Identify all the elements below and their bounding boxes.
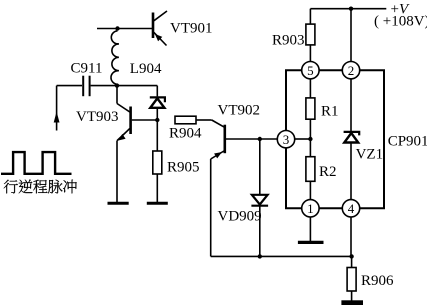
resistor R2 [306,139,315,200]
svg-text:R906: R906 [361,273,394,289]
svg-text:VT902: VT902 [218,103,261,119]
svg-text:1: 1 [307,201,314,216]
svg-text:L904: L904 [130,61,162,77]
svg-text:VT901: VT901 [170,21,213,37]
resistor R906 [347,256,356,300]
resistor R904 [175,116,212,124]
diode VD909 [251,139,268,256]
input arrow wire [54,86,60,131]
transistor VT901 [153,11,167,46]
square wave pulse symbol [1,152,72,174]
node dot rail / R906 / pin4 [349,254,353,258]
ground (VT903 emitter) [108,202,129,205]
transistor VT902 [211,120,278,256]
transistor VT903 [117,86,157,203]
ground (R905) [147,202,168,205]
svg-text:R903: R903 [272,33,305,49]
zener diode (unlabeled, above node) [150,86,165,120]
svg-text:3: 3 [283,132,290,147]
node dot VT902 base / VD909 [258,137,262,141]
top +V rail [310,8,386,10]
svg-text:R1: R1 [321,104,339,120]
pin 5 [302,61,319,78]
svg-text:R904: R904 [169,126,202,142]
svg-text:R905: R905 [167,159,200,175]
CP901 box outline [286,70,384,208]
wire pin4 to rail [350,217,352,256]
pin 3 [277,131,294,148]
node junction dot top [115,26,119,30]
label 行逆程脉冲 (hand-vectorized glyphs) [4,180,77,194]
node dot VD909 / rail [258,254,262,258]
ground (pin 1) [298,217,324,242]
svg-text:CP901: CP901 [388,134,427,150]
resistor R1 [306,79,315,139]
svg-text:4: 4 [348,201,355,216]
node dot R1/R2 [308,137,312,141]
bottom rail wire [211,255,352,257]
pin 4 [342,200,359,217]
inductor L904 [111,31,119,85]
svg-text:( +108V): ( +108V) [374,14,427,30]
resistor R905 [153,120,162,203]
pin 2 [342,61,359,78]
zener diode VZ1 [344,79,360,200]
pin 1 [302,200,319,217]
svg-text:R2: R2 [319,164,337,180]
svg-text:C911: C911 [71,61,103,77]
ground (R906, thick bar) [341,300,363,305]
wire +V rail to pin 2 [350,9,352,62]
svg-text:VD909: VD909 [218,209,262,225]
svg-text:VT903: VT903 [76,109,119,125]
svg-text:2: 2 [348,63,355,78]
svg-text:5: 5 [307,63,314,78]
node dot +V rail [349,7,353,11]
resistor R903 [306,9,315,62]
node dot VT903 base / R904 / R905 [155,118,159,122]
wire top-left to VT901 base [97,28,152,30]
svg-text:VZ1: VZ1 [356,147,384,163]
capacitor C911 [57,76,158,97]
node junction dot at C911/L904/VT903 collector [115,83,119,87]
wire pin3 to R1/R2 junction [295,138,311,140]
